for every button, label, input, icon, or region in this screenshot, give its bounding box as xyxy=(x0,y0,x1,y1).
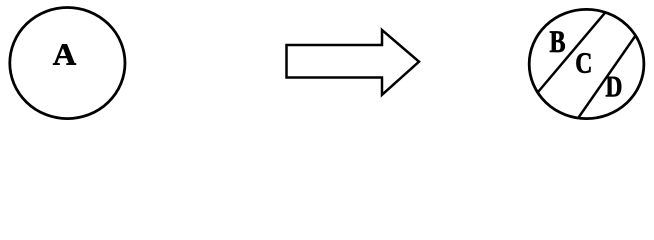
chord line 1 (between B and C) xyxy=(530,5,612,102)
chord line 2 (between C and D) xyxy=(571,22,645,128)
circle A (left circle) xyxy=(10,8,125,119)
label D xyxy=(606,77,621,97)
arrow (block arrow pointing right) xyxy=(287,30,420,95)
label C xyxy=(576,53,590,73)
label A xyxy=(53,44,76,64)
circle BCD (right circle) xyxy=(529,9,644,118)
label B xyxy=(550,31,565,52)
